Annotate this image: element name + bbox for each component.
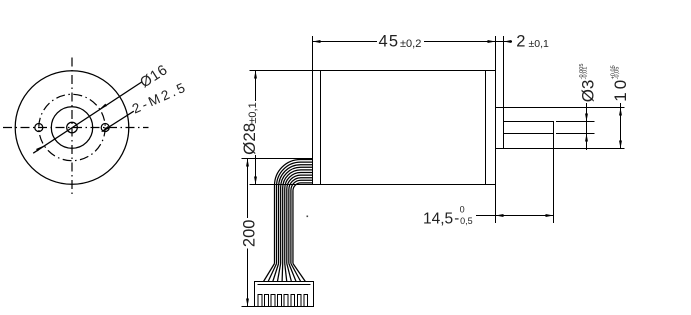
dim 10: bottom arrow bbox=[619, 141, 622, 149]
dim 10: top arrow bbox=[619, 108, 622, 116]
dim 45: left arrow bbox=[313, 40, 321, 43]
connector pin 6 bbox=[291, 295, 295, 307]
wire 4 fan-out to connector bbox=[277, 264, 280, 282]
dim 200: bottom arrow bbox=[246, 299, 249, 307]
connector pin 8 bbox=[304, 295, 308, 307]
wire 8 fan-out to connector bbox=[289, 264, 296, 282]
connector inner top line bbox=[258, 284, 311, 286]
wire 10 bbox=[293, 183, 313, 264]
dim O28: bottom extension line bbox=[250, 184, 313, 186]
wire 6 bbox=[285, 173, 313, 264]
shaft O3 bbox=[504, 122, 554, 134]
dim 10: extension top bbox=[504, 107, 625, 109]
wire 3 fan-out to connector bbox=[273, 264, 279, 282]
dim 10: dimension line bbox=[620, 103, 622, 149]
svg-text:Ø3: Ø3 bbox=[579, 80, 598, 103]
motor outer body circle bbox=[15, 71, 129, 185]
wire 1 bbox=[275, 160, 313, 264]
arrowhead on bolt circle lower-left bbox=[36, 146, 43, 152]
wire 5 fan-out to connector bbox=[281, 264, 284, 282]
dim 2: extension line from boss bbox=[503, 36, 505, 108]
svg-text:0,5: 0,5 bbox=[460, 216, 473, 226]
wire 2 fan-out to connector bbox=[268, 264, 276, 282]
arrowhead on bolt circle upper-right bbox=[100, 104, 107, 110]
dim 14,5: left arrow bbox=[496, 214, 504, 217]
dim 14,5: right arrow bbox=[546, 214, 554, 217]
dimension line O16 (diagonal through center) bbox=[33, 82, 142, 154]
dim 200: top arrow bbox=[246, 159, 249, 167]
wire 9 fan-out to connector bbox=[291, 264, 301, 282]
wire 4 bbox=[281, 167, 313, 263]
dim 45: right extension line bbox=[495, 36, 497, 71]
dim 45: right arrow bbox=[488, 40, 496, 43]
boss (10mm step) bbox=[496, 108, 504, 149]
mounting hole left M2.5 bbox=[35, 124, 43, 132]
svg-text:±0,1: ±0,1 bbox=[529, 38, 550, 50]
dim O3: upper arrow pointing down bbox=[585, 114, 588, 122]
arrowhead at right hole bbox=[102, 126, 110, 132]
wire 6 fan-out to connector bbox=[285, 264, 287, 282]
dim 2: dimension line and tail bbox=[496, 41, 513, 43]
dim O28: top arrow bbox=[254, 71, 257, 79]
left end-cap line bbox=[320, 71, 322, 185]
dim 200: top extension line bbox=[242, 158, 313, 160]
vertical centerline bbox=[71, 58, 73, 198]
dim 200: bottom extension line bbox=[242, 306, 255, 308]
svg-text:-0,05: -0,05 bbox=[614, 67, 620, 80]
svg-text:-: - bbox=[454, 210, 459, 227]
wire 5 bbox=[283, 170, 313, 264]
svg-text:±0,2: ±0,2 bbox=[400, 38, 421, 50]
dim O28: dimension line lower segment bbox=[255, 155, 257, 185]
svg-text:200: 200 bbox=[241, 220, 259, 248]
wire 3 bbox=[279, 165, 313, 264]
dim 14,5: dimension line bbox=[476, 215, 554, 217]
wire 8 bbox=[289, 178, 313, 264]
connector pin 2 bbox=[265, 295, 269, 307]
front boss circle bbox=[51, 107, 92, 148]
mounting hole right M2.5 bbox=[101, 124, 109, 132]
motor body outline bbox=[313, 71, 496, 185]
dim O3: top extension line bbox=[556, 121, 595, 123]
dim 14,5: right extension line (shaft end extended) bbox=[553, 122, 555, 224]
svg-text:14,5: 14,5 bbox=[423, 210, 453, 227]
svg-text:0: 0 bbox=[460, 205, 465, 215]
shaft circle bbox=[67, 122, 78, 133]
dim O28: dimension line upper segment bbox=[255, 71, 257, 102]
dim 2: arrow pointing left at boss line bbox=[504, 40, 512, 43]
svg-text:45: 45 bbox=[379, 33, 400, 51]
dim 45: left extension line bbox=[312, 36, 314, 71]
svg-text:-0,01: -0,01 bbox=[582, 67, 588, 80]
connector pin 3 bbox=[271, 295, 275, 307]
svg-text:Ø28: Ø28 bbox=[240, 123, 259, 155]
dim 14,5: left extension line (body edge extended) bbox=[495, 185, 497, 224]
bolt circle O16 (dash-dot) bbox=[39, 94, 105, 160]
wire 10 fan-out to connector bbox=[293, 264, 305, 282]
connector pin 7 bbox=[297, 295, 301, 307]
dim O3: dimension line bbox=[586, 103, 588, 150]
connector body bbox=[255, 282, 314, 307]
dim 200: dimension line upper part bbox=[247, 159, 249, 218]
right end-cap line bbox=[485, 71, 487, 185]
wire 2 bbox=[277, 162, 313, 263]
dim O3: bottom extension line bbox=[556, 133, 595, 135]
dim 45: dimension line right segment bbox=[424, 41, 496, 43]
connector pin 1 bbox=[258, 295, 262, 307]
wire 9 bbox=[291, 180, 313, 263]
connector pin 5 bbox=[284, 295, 288, 307]
dim 45: dimension line left segment bbox=[313, 41, 378, 43]
svg-text:2: 2 bbox=[516, 33, 525, 51]
horizontal centerline bbox=[3, 127, 149, 129]
dim 200: dimension line lower part bbox=[247, 248, 249, 306]
dim O28: top extension line bbox=[250, 70, 313, 72]
dim 10: extension bottom bbox=[504, 148, 625, 150]
leader line 2-M2.5 bbox=[102, 111, 134, 131]
speck artifact bbox=[307, 216, 309, 218]
connector pin 4 bbox=[278, 295, 282, 307]
svg-text:10: 10 bbox=[611, 77, 630, 102]
dim O3: lower arrow pointing up bbox=[585, 134, 588, 142]
wire 7 bbox=[287, 175, 313, 263]
dim O28: bottom arrow bbox=[254, 177, 257, 185]
svg-text:±0,1: ±0,1 bbox=[247, 102, 259, 123]
wire 1 fan-out to connector bbox=[264, 264, 275, 282]
wire 7 fan-out to connector bbox=[287, 264, 292, 282]
